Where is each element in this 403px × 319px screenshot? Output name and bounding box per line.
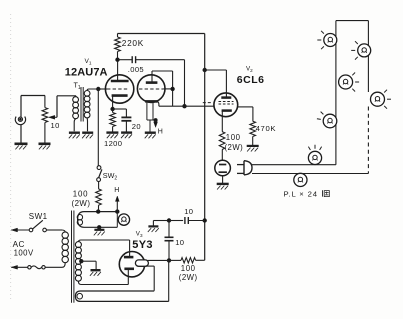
pilot lamp 7 <box>294 173 307 186</box>
label .005 <box>128 65 144 74</box>
label H (V1 heater) <box>158 129 163 136</box>
label AC <box>13 240 25 249</box>
label 5Y3 <box>132 239 152 251</box>
label 100 (B+) <box>181 264 196 273</box>
V2 grid dashes <box>219 102 234 105</box>
wire lamp string bottom <box>252 173 368 175</box>
V2 screen lead <box>238 107 253 121</box>
potentiometer VR1 10 <box>42 96 48 144</box>
wire heater to ground <box>149 120 151 132</box>
V1b cathode <box>145 101 159 106</box>
svg-text:100: 100 <box>181 264 196 273</box>
triode V1a envelope <box>105 75 133 103</box>
lamp rail left <box>335 21 337 165</box>
label 6CL6 <box>237 74 265 86</box>
ground T1 primary <box>69 133 80 139</box>
svg-text:V1: V1 <box>85 58 92 67</box>
pilot lamp 6 <box>308 145 321 165</box>
svg-text:SW1: SW1 <box>29 212 48 221</box>
svg-text:6CL6: 6CL6 <box>237 74 265 86</box>
node plate V1a <box>116 58 119 61</box>
wire plate to B+ rail <box>205 69 227 71</box>
wire grid bus to V2 <box>159 105 214 107</box>
V1b grid dashes <box>139 88 173 90</box>
lamp rail top <box>336 20 369 22</box>
resistor 100 2W B+ <box>169 258 205 263</box>
svg-text:220K: 220K <box>122 38 144 48</box>
wire+ground heater box <box>94 227 105 235</box>
wire filament lower <box>146 266 155 291</box>
pentode V2 envelope <box>214 93 238 117</box>
label 1200 <box>104 139 122 148</box>
AC line top <box>11 228 29 232</box>
H arrow up <box>115 196 119 212</box>
node filter mid <box>167 219 170 222</box>
page border (decorative) <box>10 14 12 302</box>
label P.L x 24 <box>284 189 330 198</box>
PT HV winding <box>75 240 129 285</box>
wire grid node to SW2 <box>97 89 99 166</box>
ground 470K <box>247 146 259 152</box>
lamp rail right dashed <box>367 107 369 174</box>
label 100V <box>14 249 34 258</box>
svg-text:V2: V2 <box>246 66 253 74</box>
pilot lamp 2 <box>351 41 371 59</box>
svg-text:470K: 470K <box>256 124 277 133</box>
ground pot <box>39 144 51 150</box>
ground 1200 <box>106 133 118 139</box>
resistor 1200 <box>110 109 116 132</box>
label V1 <box>85 58 92 67</box>
wire to socket <box>221 150 223 161</box>
V1b plate corner wire <box>152 71 173 106</box>
svg-text:.005: .005 <box>128 65 144 74</box>
label (2W) (heater) <box>72 199 91 208</box>
wire lamp string top <box>252 164 336 166</box>
V3 filament capsule <box>135 260 148 266</box>
capacitor 10 (cathode) <box>165 221 174 261</box>
plug <box>237 161 252 175</box>
ground socket <box>217 184 229 190</box>
label (2W) (V2) <box>225 143 244 152</box>
label 470K <box>256 124 277 133</box>
label T1 <box>74 81 81 92</box>
node cathode 5Y3 <box>167 259 170 262</box>
ground heater V1 <box>145 133 156 139</box>
node grid V1b <box>171 87 174 90</box>
label 10 (pot) <box>51 121 60 130</box>
pilot lamp 3 <box>339 73 360 92</box>
node coupling <box>183 105 186 108</box>
label 100 (V2) <box>226 133 241 142</box>
svg-text:5Y3: 5Y3 <box>132 239 152 251</box>
svg-text:SW2: SW2 <box>103 171 118 182</box>
transformer T1 secondary <box>84 89 98 131</box>
node cathode V1a <box>111 107 114 110</box>
label 10 (cap h) <box>184 207 193 216</box>
node heater box right <box>116 210 119 213</box>
resistor 100 2W heater <box>96 182 102 212</box>
label H (PT) <box>114 187 119 194</box>
capacitor .005 <box>118 56 185 63</box>
V2 inner-left dashes <box>203 102 213 104</box>
ground T1 secondary <box>82 133 93 139</box>
label V3 <box>136 230 143 238</box>
switch SW1 <box>29 220 62 232</box>
node B+ plate <box>203 68 206 71</box>
node heater <box>154 119 157 122</box>
pilot lamp 5 <box>317 112 337 128</box>
pilot lamp 4 <box>371 90 392 109</box>
triode V1b envelope <box>137 75 165 103</box>
pot wiper arrow <box>49 96 76 119</box>
label 10 (cap v) <box>175 238 184 247</box>
heater H arrow down <box>154 120 158 127</box>
PT 5V winding <box>75 291 168 301</box>
V3 plate top <box>124 240 133 257</box>
wire input jack to top corner <box>21 96 45 118</box>
node grid V1a <box>97 87 100 90</box>
AC line bottom <box>11 265 27 269</box>
V1b plate <box>146 71 158 83</box>
V1a grid dashes <box>107 88 129 90</box>
node heater box left <box>97 210 100 213</box>
lamp rail right solid <box>367 21 369 92</box>
wire filament to node <box>147 259 169 261</box>
svg-text:10: 10 <box>175 238 184 247</box>
label V2 <box>246 66 253 74</box>
svg-text:12AU7A: 12AU7A <box>65 66 108 78</box>
svg-text:100V: 100V <box>14 249 34 258</box>
ground 20 <box>121 133 132 139</box>
wire B+ rail vertical <box>204 34 206 261</box>
svg-text:H: H <box>158 129 163 136</box>
svg-text:P.L × 24: P.L × 24 <box>284 189 318 198</box>
label 220K <box>122 38 144 48</box>
svg-text:20: 20 <box>132 122 141 131</box>
V1a plate <box>111 60 129 81</box>
capacitor 10 (to B+) <box>169 217 205 224</box>
ground center tap <box>90 270 101 276</box>
PT primary <box>62 230 68 267</box>
svg-text:(2W): (2W) <box>179 273 198 282</box>
label 100 (heater) <box>73 190 89 199</box>
V1b heater legs <box>147 103 156 120</box>
resistor 470K <box>250 121 256 145</box>
input jack J1 <box>15 117 25 125</box>
label (2W) (B+) <box>179 273 198 282</box>
label 12AU7A <box>65 66 108 78</box>
label 20 <box>132 122 141 131</box>
svg-text:100: 100 <box>73 190 89 199</box>
svg-text:10: 10 <box>51 121 60 130</box>
V2 cathode <box>222 111 232 132</box>
wire jack to ground <box>20 124 22 143</box>
svg-text:100: 100 <box>226 133 241 142</box>
wire 5V winding return <box>168 260 170 301</box>
transformer T1 primary <box>73 96 79 132</box>
svg-text:T1: T1 <box>74 81 81 92</box>
wire coupling drop <box>184 60 186 106</box>
wire grid V1a <box>98 88 107 90</box>
label SW2 <box>103 171 118 182</box>
label SW1 <box>29 212 48 221</box>
svg-text:(2W): (2W) <box>225 143 244 152</box>
V3 plate bottom <box>124 269 134 285</box>
resistor 100 2W cathode <box>219 132 225 150</box>
transformer T1 core <box>81 87 83 122</box>
resistor 220K <box>115 34 121 60</box>
wire filter ground line <box>153 221 169 227</box>
output socket <box>215 160 231 176</box>
svg-text:1200: 1200 <box>104 139 122 148</box>
ground jack <box>15 144 28 150</box>
HV center tap <box>80 260 96 270</box>
svg-text:10: 10 <box>184 207 193 216</box>
node heater box ground <box>98 226 101 229</box>
node filter out <box>203 219 206 222</box>
svg-text:(2W): (2W) <box>72 199 91 208</box>
PT heater winding box <box>77 212 117 228</box>
rectifier V3 envelope <box>119 252 144 277</box>
svg-text:V3: V3 <box>136 230 143 238</box>
svg-text:H: H <box>114 187 119 194</box>
V2 plate <box>221 70 231 98</box>
pilot lamp 1 <box>317 31 337 49</box>
capacitor 20 bypass <box>113 109 132 132</box>
fuse <box>28 266 62 269</box>
pilot lamp heater <box>117 212 129 228</box>
wire socket to ground <box>222 176 224 183</box>
wire top rail <box>118 33 205 35</box>
switch SW2 <box>97 166 102 182</box>
ground filter <box>148 226 159 232</box>
V1a cathode <box>112 96 128 109</box>
power transformer core <box>72 211 74 303</box>
